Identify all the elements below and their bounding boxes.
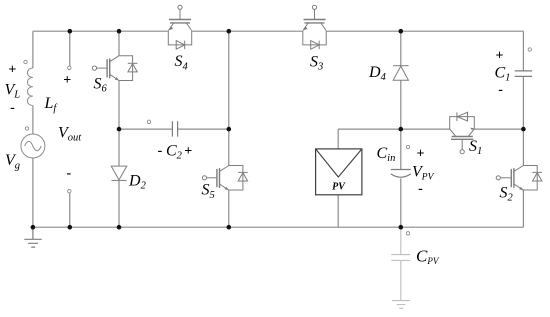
capacitor C2 — [172, 121, 177, 136]
terminal Vout minus probe — [68, 190, 71, 193]
node bottom rail / ground — [31, 225, 36, 230]
svg-text:+: + — [63, 73, 71, 88]
node bottom rail / Vout- stub — [68, 225, 73, 230]
capacitor C1 — [515, 71, 532, 77]
terminal VPV minus probe — [406, 232, 409, 235]
transistor S4 — [168, 5, 191, 49]
svg-text:Vg: Vg — [5, 152, 20, 171]
svg-text:S6: S6 — [94, 75, 108, 94]
wire branch x=119 — [118, 31, 120, 227]
node dots — [31, 29, 526, 230]
svg-text:-: - — [498, 82, 503, 97]
terminal C2 probe — [147, 120, 150, 123]
svg-text:+: + — [8, 62, 16, 77]
svg-text:S4: S4 — [175, 53, 189, 72]
svg-text:Lf: Lf — [44, 95, 59, 114]
wire top rail — [33, 30, 524, 32]
transistor S1 — [450, 112, 475, 153]
svg-text:D4: D4 — [368, 64, 387, 83]
node top rail / D4 branch — [399, 29, 404, 34]
svg-text:-: - — [418, 182, 423, 197]
svg-text:C1: C1 — [495, 65, 511, 84]
transistor S2 — [496, 166, 542, 191]
ground — [24, 227, 41, 247]
transistor S3 — [303, 5, 326, 49]
capacitor CPV — [391, 227, 410, 300]
source Vg — [21, 134, 45, 158]
svg-text:VL: VL — [5, 82, 21, 101]
node bottom rail / S5 branch — [227, 225, 232, 230]
svg-text:PV: PV — [332, 181, 346, 192]
terminal VL minus probe — [25, 127, 28, 130]
terminal VL plus probe — [24, 60, 27, 63]
diode D4 — [393, 66, 408, 81]
wire mid row PV link — [338, 128, 401, 130]
node top rail / S6 branch — [117, 29, 122, 34]
svg-text:CPV: CPV — [416, 246, 440, 266]
wire bottom rail — [33, 226, 524, 228]
svg-text:+: + — [184, 144, 192, 159]
svg-text:S5: S5 — [202, 182, 215, 201]
node top rail / Vout+ stub — [68, 29, 73, 34]
wire right branch x=523 — [522, 31, 524, 227]
wire mid row C2 — [119, 128, 229, 130]
capacitor Cin — [391, 170, 411, 178]
probe circles — [24, 48, 532, 235]
wire mid row S1 — [401, 128, 524, 130]
wire Vout probe stubs x=70 — [69, 31, 71, 227]
wire PV riser — [337, 129, 339, 227]
transistor S5 — [202, 166, 247, 191]
svg-text:Cin: Cin — [377, 145, 396, 164]
node top rail / S5 branch — [227, 29, 232, 34]
svg-text:D2: D2 — [128, 173, 147, 192]
wire branch x=229 — [228, 31, 230, 227]
svg-text:C2: C2 — [166, 143, 183, 162]
inductor Lf — [27, 68, 32, 106]
svg-text:VPV: VPV — [412, 164, 435, 183]
node C2 row / S5 branch — [227, 127, 232, 132]
wire left branch x=33 — [32, 31, 34, 227]
svg-text:-: - — [10, 101, 15, 116]
svg-text:S1: S1 — [469, 138, 482, 157]
svg-text:S3: S3 — [310, 54, 323, 73]
node bottom rail / CPV branch — [399, 225, 404, 230]
node bottom rail / D2 branch — [117, 225, 122, 230]
transistor S6 — [92, 56, 137, 81]
terminal VPV plus probe — [406, 145, 409, 148]
svg-text:-: - — [66, 166, 71, 181]
svg-text:-: - — [158, 144, 163, 159]
terminal C1 probe — [528, 48, 531, 51]
svg-text:+: + — [417, 146, 425, 161]
diode D2 — [111, 166, 127, 180]
ground CPV — [392, 301, 410, 309]
terminal Vout plus probe — [68, 66, 71, 69]
svg-text:+: + — [496, 48, 504, 63]
wire branch x=401 — [400, 31, 402, 227]
node C2 row / S6-D2 branch — [117, 127, 122, 132]
svg-text:Vout: Vout — [58, 125, 82, 144]
PV panel — [316, 149, 362, 195]
svg-text:S2: S2 — [500, 184, 514, 203]
node PV bus / Cin branch — [399, 127, 404, 132]
node S1 row / C1 branch — [521, 127, 526, 132]
